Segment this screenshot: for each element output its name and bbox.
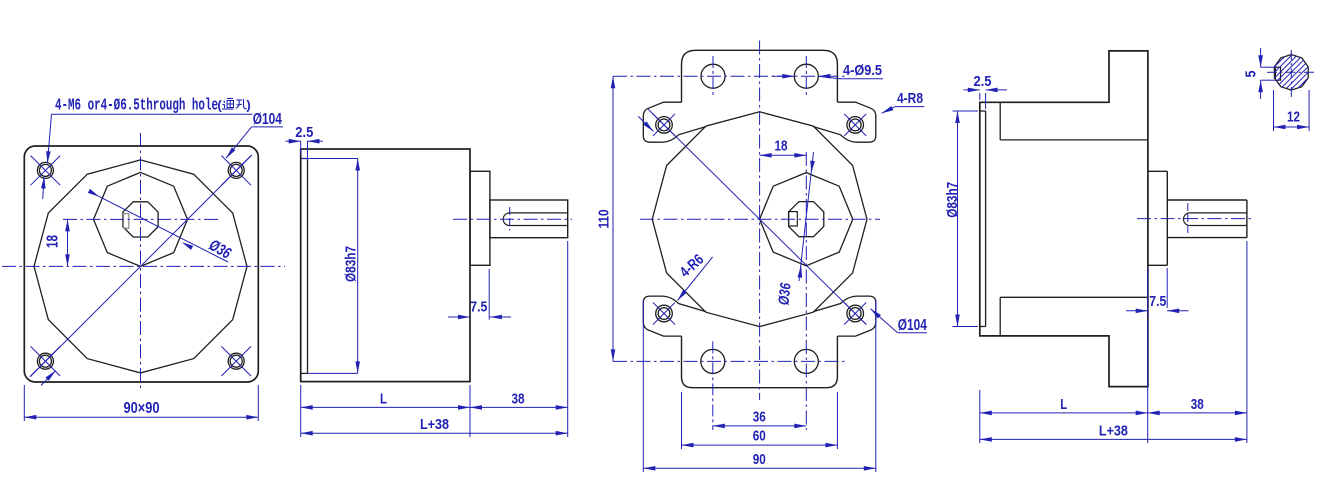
view 1 (through hole) hanzi — [217, 98, 250, 113]
view 3 vertical center line — [759, 41, 761, 401]
view 1 mounting hole 3 (M6) — [37, 353, 53, 369]
dimension 5 detail — [1243, 48, 1277, 99]
view 3 top tab — [682, 50, 838, 102]
svg-text:Ø104: Ø104 — [898, 317, 927, 334]
dimension 18 view 3 — [760, 137, 807, 157]
view 3 tab hole 4 (D9.5) — [794, 349, 818, 373]
dimension L+38 view 4 — [980, 422, 1247, 441]
svg-text:38: 38 — [512, 390, 525, 407]
view 3 gearbox body circle (12-gon, D83) — [652, 112, 867, 327]
view 2 shaft flat with arc — [503, 213, 568, 226]
view 1 D36 circle (octagon) — [94, 172, 188, 266]
dimension 2.5 view 2 — [286, 124, 324, 160]
view 2 bottom extension lines — [301, 241, 568, 437]
view 3 tab hole vertical ticks — [713, 56, 807, 430]
svg-text:): ) — [246, 98, 250, 113]
svg-text:4-M6 or4-Ø6.5through hole: 4-M6 or4-Ø6.5through hole — [55, 96, 218, 115]
view 3 corner pad bottom-right — [813, 296, 876, 336]
view 3 D104 leader arrow lower-right — [871, 309, 898, 333]
view 1 shaft circle (octagon) — [123, 202, 158, 237]
dimension 38 view 4 — [1148, 396, 1247, 415]
dimension D36 view 3 — [775, 152, 814, 306]
detail shaft section circle (decagon) — [1274, 55, 1308, 91]
detail vertical center line — [1290, 50, 1292, 98]
view 3 tab hole 1 (D9.5) — [701, 64, 725, 88]
view 3 corner hole 4 — [847, 305, 864, 322]
view 3 corner pad top-left — [643, 102, 706, 142]
view 2 spigot D83 plate — [301, 159, 308, 374]
label 4-D9.5 view 3 — [772, 62, 883, 79]
svg-text:2.5: 2.5 — [295, 124, 313, 141]
view 1 mounting hole 1 (M6) — [37, 162, 53, 178]
view 3 corner hole 3 cross — [653, 303, 675, 325]
view 3 shaft vertical center line — [805, 152, 807, 430]
svg-text:90: 90 — [753, 451, 766, 468]
dimension D104 label view 1 — [252, 111, 283, 128]
view 2 gearbox housing — [301, 149, 470, 382]
svg-text:4-R8: 4-R8 — [897, 90, 923, 107]
view 3 bolt-circle diagonal — [648, 109, 867, 325]
svg-text:38: 38 — [1191, 396, 1204, 413]
view 3 corner pad top-right — [813, 102, 876, 142]
dimension L+38 view 2 — [301, 416, 568, 435]
svg-text:Ø36: Ø36 — [775, 282, 794, 306]
view 1 horizontal center line — [2, 265, 285, 267]
svg-text:7.5: 7.5 — [470, 299, 487, 316]
view 4 housing outline — [980, 51, 1148, 387]
svg-text:L: L — [380, 390, 387, 407]
view 3 shaft circle (octagon) — [789, 202, 824, 237]
view 1 mounting hole 4 cross — [221, 346, 251, 376]
svg-text:5: 5 — [1243, 71, 1260, 78]
view 3 bottom hole row center line — [613, 360, 846, 362]
svg-text:18: 18 — [45, 235, 62, 248]
view 3 corner hole 4 cross — [844, 303, 866, 325]
label 4-R8 view 3 — [882, 90, 925, 113]
detail horizontal center line — [1267, 71, 1316, 73]
svg-text:Ø104: Ø104 — [253, 111, 282, 128]
dimension 7.5 view 4 — [1126, 268, 1189, 318]
dimension L view 4 — [980, 396, 1148, 415]
view 3 tab hole 3 (D9.5) — [701, 349, 725, 373]
dimension D36 view 1 — [88, 189, 234, 263]
view 4 shaft flat with arc — [1184, 213, 1247, 226]
view 4 front housing step lines — [1000, 102, 1148, 336]
svg-text:36: 36 — [753, 408, 766, 425]
detail hatching — [1247, 50, 1336, 94]
view 3 tab hole 2 (D9.5) — [794, 64, 818, 88]
view 4 shaft center line — [1137, 218, 1252, 220]
view 1 gearbox body circle (12-gon, D83) — [34, 160, 247, 373]
dimension 90x90 view 1 — [24, 385, 258, 421]
svg-text:(: ( — [217, 98, 222, 113]
view 1 bolt-circle diagonal — [30, 155, 252, 377]
view 1 D104 arrow lower-left — [41, 371, 56, 386]
dimension 110 view 3 — [596, 76, 616, 361]
svg-text:60: 60 — [753, 428, 766, 445]
view 3 top hole row center line — [613, 75, 846, 77]
svg-text:2.5: 2.5 — [974, 73, 992, 90]
svg-text:L+38: L+38 — [1099, 422, 1128, 439]
view 3 shaft keyway — [789, 212, 798, 226]
view 3 corner hole 2 cross — [844, 114, 866, 136]
dimension L view 2 — [301, 390, 470, 409]
dimension 2.5 view 4 — [964, 73, 1008, 109]
view 3 corner hole 2 — [847, 117, 864, 134]
view 4 bottom extension lines — [980, 241, 1247, 443]
detail shaft flat — [1275, 67, 1280, 80]
dimension 12 detail — [1274, 90, 1310, 131]
view 3 D104 arrow upper-left — [638, 116, 653, 131]
view 1 mounting hole 4 (M6) — [228, 353, 244, 369]
svg-text:4-Ø9.5: 4-Ø9.5 — [843, 62, 882, 79]
view 2 output shaft — [490, 200, 568, 238]
dimension 36 view 3 — [713, 408, 807, 428]
svg-text:Ø83h7: Ø83h7 — [343, 246, 360, 282]
svg-text:L: L — [1060, 396, 1067, 413]
view 2 flat center tick — [509, 207, 511, 231]
view 1 vertical center line — [140, 133, 142, 391]
view 3 horizontal center line — [640, 218, 880, 220]
dimension D83h7 view 2 — [301, 159, 360, 374]
dimension 7.5 view 2 — [448, 269, 511, 320]
svg-text:18: 18 — [775, 137, 788, 154]
view 3 corner pad bottom-left — [643, 296, 706, 336]
dimension D83h7 view 4 — [944, 111, 978, 327]
svg-text:90×90: 90×90 — [124, 400, 160, 417]
dimension D104 label view 3 — [898, 317, 927, 334]
view 3 corner hole 1 cross — [653, 114, 675, 136]
view 4 output shaft — [1167, 200, 1247, 238]
view 1 mounting hole 2 (M6) — [228, 162, 244, 178]
label 4-R6 view 3 — [677, 251, 713, 301]
view 3 bottom tab — [682, 336, 838, 388]
dimension 18 view 1 — [45, 219, 70, 266]
view 1 square flange outline 90x90 — [24, 146, 258, 382]
view 1 4-M6 label leader — [41, 114, 253, 199]
view 2 bearing boss — [470, 171, 490, 265]
dimension 38 view 2 — [470, 390, 568, 409]
view 1 shaft horizontal center line — [63, 218, 218, 220]
view 3 corner hole 3 — [656, 305, 673, 322]
dimension 60 view 3 — [682, 392, 838, 449]
view 3 corner hole 1 — [656, 117, 673, 134]
svg-text:110: 110 — [596, 210, 613, 229]
view 1 mounting hole 3 cross — [31, 346, 61, 376]
view 4 bearing boss — [1148, 171, 1167, 265]
view 2 shaft center line — [453, 218, 572, 220]
dimension 90 view 3 — [643, 300, 876, 472]
svg-text:Ø83h7: Ø83h7 — [944, 182, 961, 218]
svg-text:L+38: L+38 — [420, 416, 449, 433]
view 1 mounting hole 2 cross — [221, 156, 251, 186]
view 4 spigot D83 plate — [980, 111, 986, 327]
view 1 D104 leader arrow upper-right — [226, 127, 252, 158]
view 1 shaft keyway mark — [124, 214, 129, 229]
view 4 flat center tick — [1187, 203, 1189, 235]
view 3 D36 circle (octagon) — [760, 173, 853, 266]
svg-text:12: 12 — [1287, 109, 1300, 126]
view 1 mounting hole 1 cross — [31, 156, 61, 186]
svg-text:7.5: 7.5 — [1149, 293, 1166, 310]
view 1 4-M6 text label — [55, 96, 218, 115]
